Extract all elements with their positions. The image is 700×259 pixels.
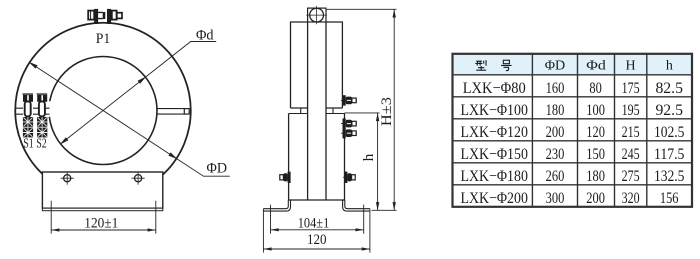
inner circle (window, diameter d)	[49, 57, 157, 165]
svg-text:120±1: 120±1	[84, 216, 118, 232]
spec table header background	[453, 54, 693, 75]
svg-text:104±1: 104±1	[298, 215, 330, 231]
base bottom strip	[42, 208, 162, 211]
foot bracket (side view, hat profile)	[263, 200, 370, 211]
svg-text:82.5: 82.5	[655, 80, 683, 97]
primary bolt P1 (top, horizontal)	[88, 9, 122, 24]
mounting bolt left (side view)	[280, 172, 291, 183]
table row 2	[460, 102, 683, 119]
mounting hole right (crosshair)	[132, 172, 145, 185]
dimension 104±1 (mounting hole spacing)	[271, 205, 364, 234]
secondary terminal screw 3	[341, 128, 357, 138]
table row 4	[460, 146, 684, 163]
table row 3	[460, 124, 684, 141]
table row 6	[460, 190, 678, 207]
core gap slot left (under terminals)	[15, 108, 49, 114]
svg-text:h: h	[666, 59, 673, 74]
svg-text:LXK−Φ200: LXK−Φ200	[460, 190, 528, 207]
dimension line PhiD (diagonal across outer circle)	[30, 63, 230, 177]
svg-text:h: h	[361, 153, 377, 161]
svg-text:132.5: 132.5	[654, 168, 685, 185]
svg-text:LXK−Φ100: LXK−Φ100	[460, 102, 528, 119]
svg-text:245: 245	[622, 146, 640, 163]
secondary terminal screw 1 (side view right)	[341, 95, 357, 105]
svg-text:LXK−Φ80: LXK−Φ80	[463, 80, 526, 97]
svg-text:Φd: Φd	[196, 28, 214, 44]
svg-text:120: 120	[307, 232, 327, 248]
header char 型	[475, 60, 486, 70]
svg-text:ΦD: ΦD	[207, 160, 228, 176]
svg-text:117.5: 117.5	[654, 146, 685, 163]
svg-text:LXK−Φ150: LXK−Φ150	[460, 146, 528, 163]
svg-text:195: 195	[622, 102, 640, 119]
svg-text:300: 300	[546, 190, 565, 207]
svg-text:Φd: Φd	[586, 59, 606, 74]
mounting bolt right (side view)	[343, 172, 355, 183]
svg-text:200: 200	[586, 190, 605, 207]
svg-text:100: 100	[586, 102, 605, 119]
header char 号	[501, 60, 511, 70]
svg-text:175: 175	[622, 80, 640, 97]
dimension line Phid (diagonal across inner circle)	[61, 42, 217, 144]
svg-text:ΦD: ΦD	[545, 59, 566, 74]
svg-text:275: 275	[622, 168, 640, 185]
mounting hole left (crosshair)	[61, 172, 74, 185]
svg-text:P1: P1	[96, 31, 111, 47]
svg-text:260: 260	[546, 168, 565, 185]
svg-text:156: 156	[660, 190, 679, 207]
dimension 120 (foot width)	[263, 209, 370, 253]
svg-text:230: 230	[546, 146, 565, 163]
secondary terminals S1 S2 (left side)	[22, 94, 65, 137]
svg-text:200: 200	[546, 124, 565, 141]
outer circle (front view toroid, diameter D)	[15, 23, 191, 199]
svg-text:102.5: 102.5	[654, 124, 685, 141]
svg-text:160: 160	[546, 80, 565, 97]
side view lower case	[289, 114, 345, 201]
svg-text:S1 S2: S1 S2	[23, 136, 47, 151]
svg-text:80: 80	[589, 80, 601, 97]
spec table grid	[453, 54, 693, 207]
table row 5	[460, 168, 684, 185]
table row 1	[463, 80, 683, 97]
svg-text:150: 150	[586, 146, 605, 163]
svg-text:320: 320	[622, 190, 640, 207]
secondary terminal screw 2	[341, 118, 357, 128]
side view upper case	[291, 22, 343, 108]
dimension 120±1 (front view)	[51, 201, 156, 234]
svg-text:H±3: H±3	[379, 97, 395, 126]
svg-text:215: 215	[622, 124, 640, 141]
svg-text:120: 120	[586, 124, 605, 141]
h extension line (joint to h dimension)	[345, 112, 380, 114]
core gap slot right	[157, 109, 190, 115]
svg-text:H: H	[626, 59, 636, 74]
svg-text:180: 180	[586, 168, 605, 185]
dimension H±3 (overall height)	[327, 9, 397, 210]
svg-text:180: 180	[546, 102, 565, 119]
side view center column	[308, 22, 326, 200]
svg-text:LXK−Φ120: LXK−Φ120	[460, 124, 528, 141]
svg-text:LXK−Φ180: LXK−Φ180	[460, 168, 528, 185]
svg-text:92.5: 92.5	[655, 102, 683, 119]
dimension h (terminal plane height)	[376, 113, 379, 210]
primary terminal end (crosshair square on top)	[306, 6, 327, 24]
base plate (front view)	[42, 172, 162, 208]
case joint lines	[289, 108, 345, 114]
